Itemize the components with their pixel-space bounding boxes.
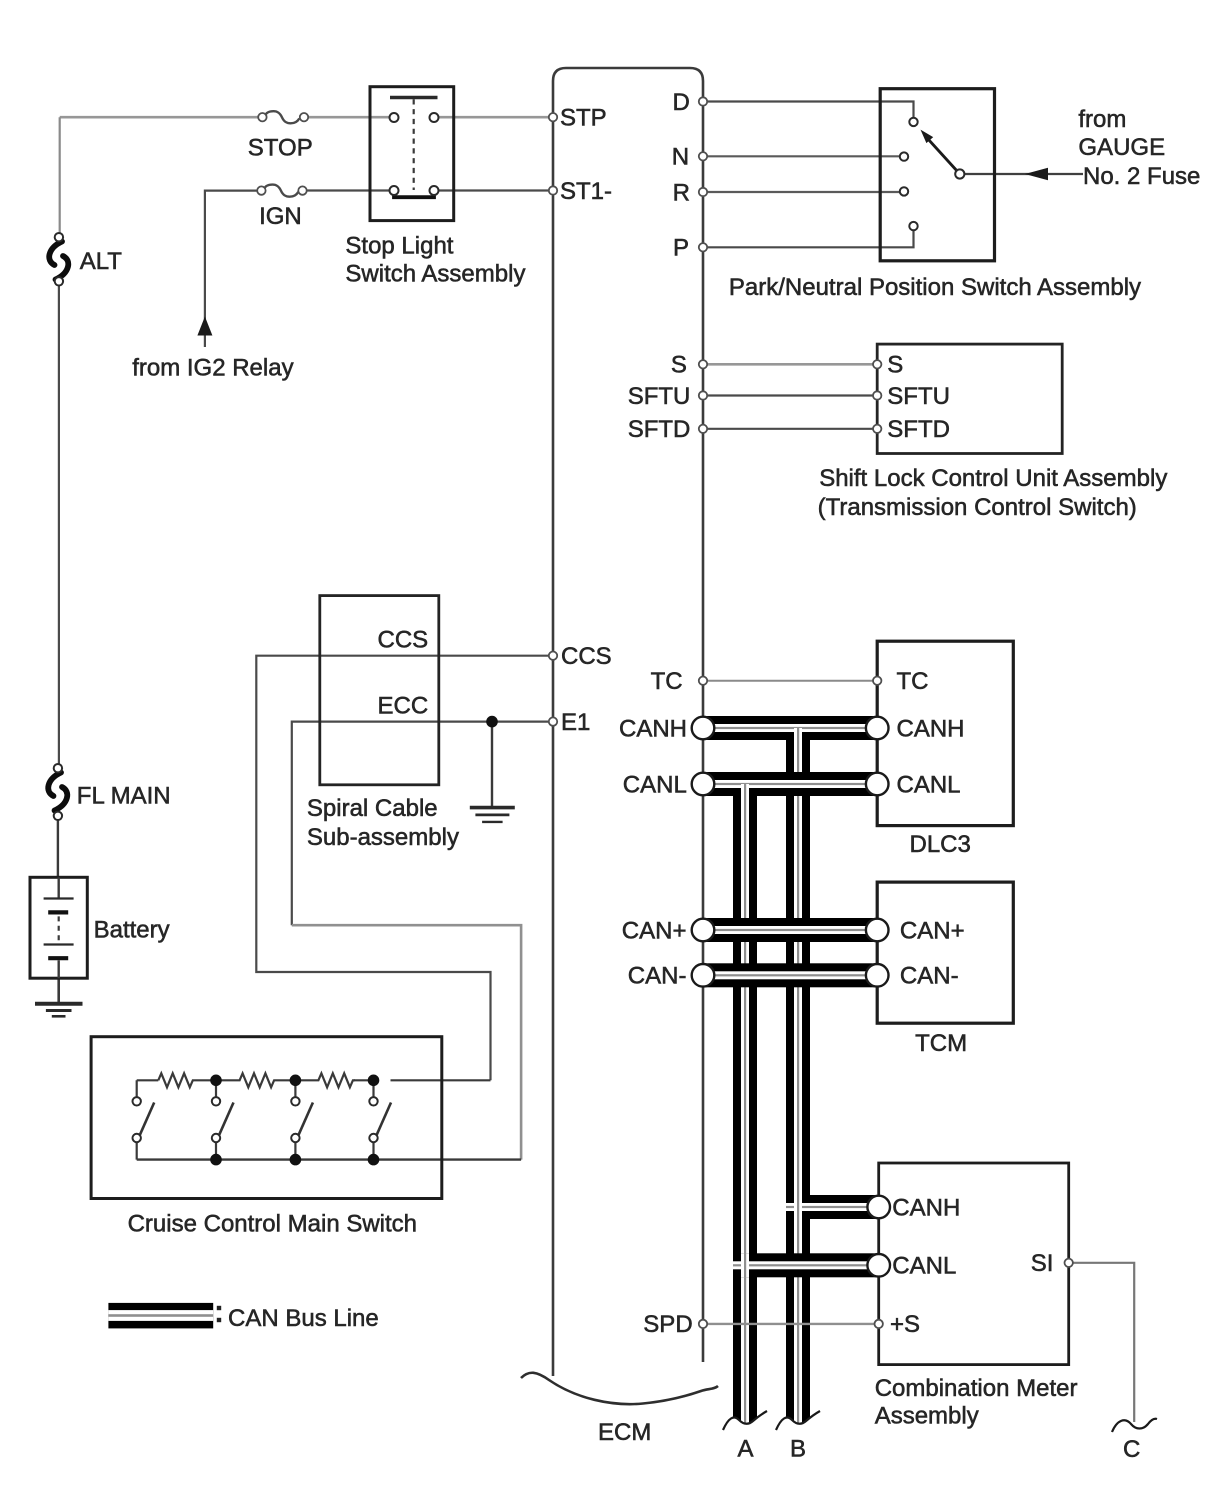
svg-text:SFTD: SFTD xyxy=(628,416,691,443)
svg-text:GAUGE: GAUGE xyxy=(1078,134,1165,161)
svg-text:STOP: STOP xyxy=(248,135,313,162)
svg-text:Sub-assembly: Sub-assembly xyxy=(307,824,459,851)
svg-text:TCM: TCM xyxy=(915,1030,967,1057)
svg-text:S: S xyxy=(887,352,903,379)
svg-text:CAN+: CAN+ xyxy=(900,917,965,944)
svg-text:Spiral Cable: Spiral Cable xyxy=(307,795,438,822)
svg-text:FL MAIN: FL MAIN xyxy=(77,782,171,809)
svg-text:CANL: CANL xyxy=(892,1253,956,1280)
svg-text:R: R xyxy=(673,179,690,206)
svg-text:D: D xyxy=(673,89,690,116)
svg-text:ST1-: ST1- xyxy=(560,178,612,205)
svg-text:CANH: CANH xyxy=(892,1194,960,1221)
svg-text:C: C xyxy=(1123,1436,1140,1463)
svg-text:ECC: ECC xyxy=(378,693,429,720)
svg-text:from IG2 Relay: from IG2 Relay xyxy=(132,355,293,382)
svg-text:N: N xyxy=(672,144,689,171)
svg-text:Park/Neutral Position Switch A: Park/Neutral Position Switch Assembly xyxy=(729,274,1141,301)
svg-text:Battery: Battery xyxy=(94,917,170,944)
svg-text:ALT: ALT xyxy=(80,248,123,275)
svg-text:Stop Light: Stop Light xyxy=(345,233,453,260)
svg-text:CAN+: CAN+ xyxy=(622,917,687,944)
svg-text:SFTU: SFTU xyxy=(628,383,691,410)
svg-text:P: P xyxy=(673,235,689,262)
svg-text:(Transmission Control Switch): (Transmission Control Switch) xyxy=(818,494,1137,521)
svg-text:Assembly: Assembly xyxy=(875,1403,979,1430)
svg-text:A: A xyxy=(738,1436,754,1463)
svg-text:IGN: IGN xyxy=(259,203,302,230)
svg-text:CCS: CCS xyxy=(561,643,612,670)
svg-text:CAN Bus Line: CAN Bus Line xyxy=(228,1305,379,1332)
svg-text:CANL: CANL xyxy=(897,771,961,798)
svg-text:Cruise Control Main Switch: Cruise Control Main Switch xyxy=(128,1211,417,1238)
svg-text:CAN-: CAN- xyxy=(628,963,687,990)
svg-text:S: S xyxy=(671,352,687,379)
svg-text:CANH: CANH xyxy=(619,715,687,742)
svg-text:CCS: CCS xyxy=(378,627,429,654)
svg-text:ECM: ECM xyxy=(598,1419,651,1446)
svg-text:CAN-: CAN- xyxy=(900,963,959,990)
svg-text:from: from xyxy=(1078,106,1126,133)
svg-text:+S: +S xyxy=(890,1311,920,1338)
svg-text:DLC3: DLC3 xyxy=(910,831,971,858)
svg-text:Shift Lock Control Unit Assemb: Shift Lock Control Unit Assembly xyxy=(819,465,1167,492)
svg-text:SPD: SPD xyxy=(643,1311,692,1338)
svg-text:SFTU: SFTU xyxy=(887,383,950,410)
svg-text:B: B xyxy=(790,1436,806,1463)
svg-text:CANL: CANL xyxy=(623,771,687,798)
svg-text:Combination Meter: Combination Meter xyxy=(875,1375,1078,1402)
svg-text:TC: TC xyxy=(897,668,929,695)
svg-text:SFTD: SFTD xyxy=(887,416,950,443)
svg-text:Switch Assembly: Switch Assembly xyxy=(345,261,525,288)
svg-text:SI: SI xyxy=(1031,1250,1054,1277)
svg-text:STP: STP xyxy=(560,105,607,132)
svg-text:TC: TC xyxy=(651,668,683,695)
svg-text:E1: E1 xyxy=(561,709,590,736)
svg-text:No. 2 Fuse: No. 2 Fuse xyxy=(1083,163,1200,190)
svg-text:CANH: CANH xyxy=(897,715,965,742)
